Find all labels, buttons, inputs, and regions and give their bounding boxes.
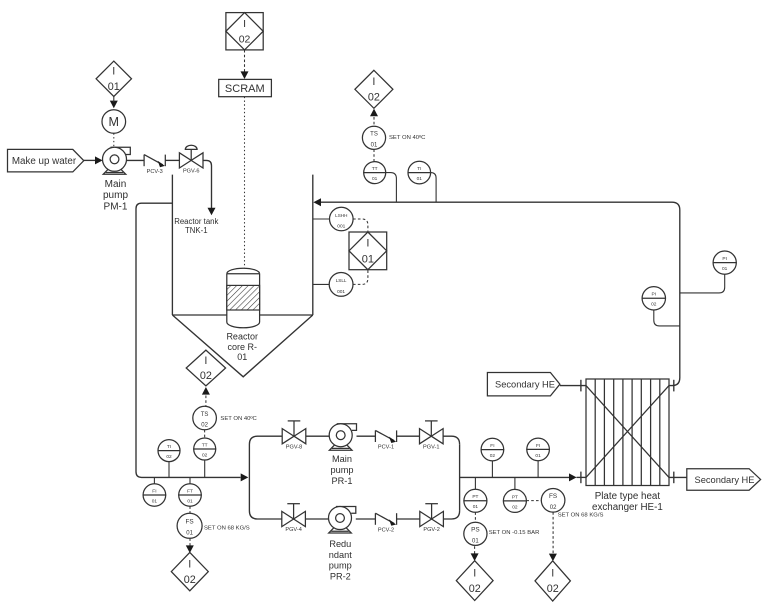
svg-text:FI: FI [536, 443, 540, 449]
svg-text:I: I [551, 568, 554, 580]
svg-text:Plate type heatexchanger HE-1: Plate type heatexchanger HE-1 [592, 491, 663, 513]
svg-text:PGV-4: PGV-4 [285, 527, 301, 533]
svg-text:02: 02 [490, 453, 496, 459]
svg-text:01: 01 [473, 504, 479, 510]
svg-text:01: 01 [417, 176, 423, 182]
svg-text:FS: FS [186, 519, 194, 526]
svg-text:PCV-2: PCV-2 [378, 527, 394, 533]
svg-text:PT: PT [512, 494, 518, 500]
svg-text:PGV-8: PGV-8 [286, 444, 302, 450]
svg-text:PI: PI [722, 256, 727, 262]
svg-text:02: 02 [184, 574, 196, 586]
svg-text:SET ON -0.15 BAR: SET ON -0.15 BAR [489, 530, 540, 536]
svg-text:I: I [366, 238, 369, 250]
svg-text:TT: TT [202, 442, 208, 448]
svg-text:FS: FS [549, 493, 557, 500]
svg-text:PCV-3: PCV-3 [147, 169, 163, 175]
svg-text:RedundantpumpPR-2: RedundantpumpPR-2 [329, 539, 352, 582]
svg-text:02: 02 [368, 92, 380, 104]
svg-text:I: I [112, 66, 115, 78]
svg-text:02: 02 [202, 452, 208, 458]
svg-text:01: 01 [186, 530, 193, 536]
svg-text:SET ON 68 KG/S: SET ON 68 KG/S [204, 526, 250, 532]
svg-text:I: I [372, 76, 375, 88]
svg-text:PI: PI [652, 292, 657, 298]
svg-text:PGV-2: PGV-2 [423, 527, 439, 533]
svg-text:02: 02 [651, 302, 657, 308]
svg-text:001: 001 [337, 289, 345, 295]
svg-text:PCV-1: PCV-1 [378, 445, 394, 451]
svg-text:02: 02 [550, 505, 557, 511]
svg-text:MainpumpPR-1: MainpumpPR-1 [331, 454, 354, 486]
svg-text:Secondary HE: Secondary HE [695, 475, 755, 485]
svg-text:PS: PS [471, 527, 480, 534]
svg-text:FI: FI [152, 488, 156, 494]
svg-text:TS: TS [201, 412, 209, 418]
svg-text:PGV-6: PGV-6 [183, 169, 199, 175]
svg-text:01: 01 [372, 176, 378, 182]
svg-text:02: 02 [200, 370, 212, 382]
svg-text:02: 02 [201, 423, 208, 429]
svg-text:PT: PT [472, 494, 478, 500]
svg-text:01: 01 [362, 253, 374, 265]
svg-text:LSLL: LSLL [336, 278, 347, 283]
svg-text:02: 02 [469, 583, 481, 595]
svg-text:Make up water: Make up water [12, 156, 77, 167]
svg-text:02: 02 [166, 454, 172, 460]
svg-text:M: M [109, 115, 120, 129]
svg-text:MainpumpPM-1: MainpumpPM-1 [103, 179, 128, 213]
svg-text:01: 01 [108, 81, 120, 93]
svg-text:I: I [243, 18, 246, 30]
svg-text:SCRAM: SCRAM [225, 83, 265, 95]
svg-text:SET ON 40ºC: SET ON 40ºC [220, 415, 257, 422]
svg-text:PGV-1: PGV-1 [423, 444, 439, 450]
svg-text:Secondary HE: Secondary HE [495, 380, 555, 390]
svg-text:02: 02 [547, 583, 559, 595]
svg-text:TT: TT [372, 166, 378, 172]
svg-text:02: 02 [239, 34, 251, 46]
svg-text:01: 01 [152, 498, 158, 504]
svg-text:I: I [473, 567, 476, 579]
svg-text:TI: TI [417, 166, 421, 172]
svg-text:SET ON 68 KG/S: SET ON 68 KG/S [558, 512, 604, 518]
svg-text:TS: TS [370, 132, 378, 138]
svg-text:FT: FT [187, 488, 193, 494]
svg-text:01: 01 [472, 538, 479, 544]
svg-text:01: 01 [371, 142, 378, 148]
svg-text:01: 01 [722, 266, 728, 272]
svg-text:01: 01 [187, 498, 193, 504]
svg-text:001: 001 [337, 224, 345, 230]
svg-text:02: 02 [512, 504, 518, 510]
svg-text:SET ON 40ºC: SET ON 40ºC [389, 134, 426, 141]
svg-text:I: I [188, 558, 191, 570]
svg-text:FI: FI [490, 443, 494, 449]
svg-text:01: 01 [535, 453, 541, 459]
svg-text:TI: TI [167, 444, 171, 450]
svg-text:I: I [204, 355, 207, 367]
svg-text:LSHH: LSHH [335, 213, 347, 218]
